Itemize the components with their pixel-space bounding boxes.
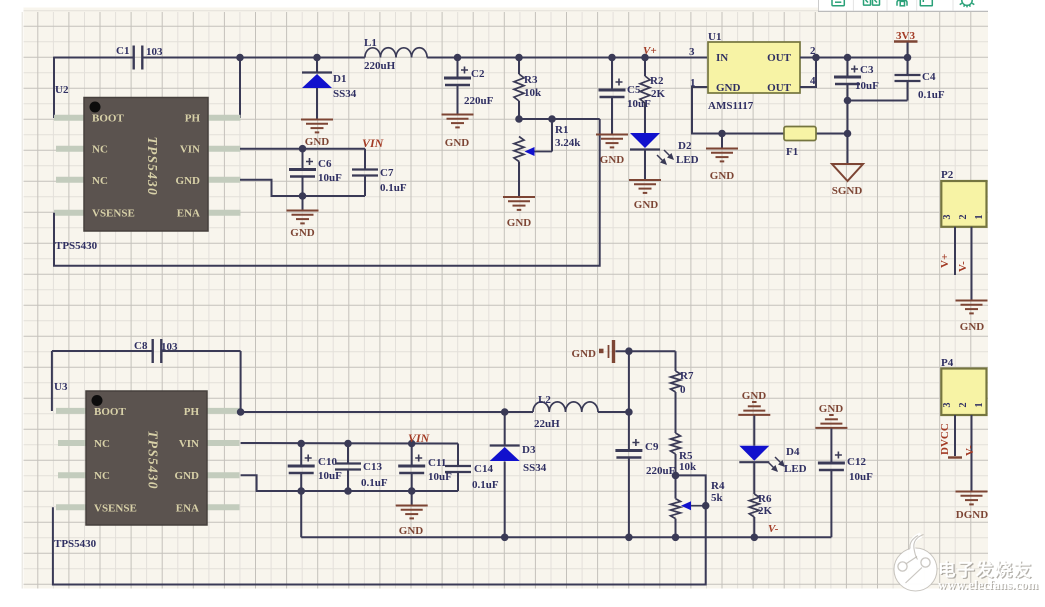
- svg-text:D1: D1: [333, 73, 346, 85]
- svg-text:GND: GND: [305, 136, 330, 148]
- wire P4 pin V-: [964, 415, 976, 491]
- diode D1 SS34: [302, 54, 332, 120]
- svg-text:10uF: 10uF: [318, 470, 342, 482]
- watermark logo: [894, 535, 937, 592]
- wire VIN pin (U2): [240, 148, 365, 150]
- svg-text:NC: NC: [92, 144, 108, 156]
- svg-text:电子发烧友: 电子发烧友: [938, 560, 1033, 580]
- net label VIN (upper): [362, 136, 385, 150]
- svg-text:10uF: 10uF: [855, 80, 879, 92]
- svg-text:U3: U3: [54, 381, 68, 393]
- svg-text:BOOT: BOOT: [92, 113, 124, 125]
- wire VSENSE feedback (U2): [54, 119, 600, 266]
- svg-text:0.1uF: 0.1uF: [918, 89, 945, 101]
- svg-text:3: 3: [942, 215, 953, 220]
- svg-text:2: 2: [958, 215, 969, 220]
- svg-text:3.24k: 3.24k: [555, 137, 581, 149]
- svg-text:2: 2: [958, 403, 969, 408]
- svg-text:GND: GND: [634, 199, 659, 211]
- wire GND pin (U3): [241, 475, 458, 491]
- capacitor C9: [615, 412, 675, 541]
- label TPS5430 (U3): [54, 538, 97, 550]
- wire P2 pin V-: [957, 227, 972, 300]
- LED D4: [739, 446, 806, 494]
- svg-text:C14: C14: [474, 463, 493, 475]
- svg-text:2: 2: [810, 45, 816, 57]
- svg-text:R6: R6: [758, 493, 772, 505]
- svg-text:R7: R7: [680, 370, 694, 382]
- ground under P2: [956, 301, 988, 334]
- toolbar strip: [818, 0, 988, 11]
- capacitor C10: [288, 440, 342, 495]
- svg-text:L1: L1: [364, 37, 377, 49]
- label P4: [941, 357, 954, 369]
- op-amp U3 TPS5430: [56, 391, 240, 525]
- svg-text:R2: R2: [650, 75, 664, 87]
- fuse F1: [784, 127, 816, 159]
- svg-text:VIN: VIN: [179, 438, 199, 450]
- pin numbers P2: [942, 215, 985, 220]
- svg-text:C12: C12: [847, 456, 866, 468]
- svg-text:SS34: SS34: [333, 88, 357, 100]
- svg-text:GND: GND: [819, 403, 844, 415]
- svg-text:10uF: 10uF: [627, 98, 651, 110]
- svg-text:GND: GND: [960, 321, 985, 333]
- svg-text:IN: IN: [716, 52, 728, 64]
- svg-text:C13: C13: [363, 461, 382, 473]
- svg-text:LED: LED: [784, 463, 807, 475]
- svg-text:V+: V+: [643, 45, 657, 57]
- wire feedback node: [515, 115, 600, 123]
- capacitor C2: [444, 54, 494, 114]
- svg-text:GND: GND: [572, 348, 597, 360]
- svg-text:C1: C1: [116, 45, 129, 57]
- connector P4: [941, 369, 986, 416]
- label U2: [55, 84, 69, 96]
- svg-text:NC: NC: [92, 175, 108, 187]
- potentiometer R4 5k: [671, 472, 725, 541]
- ground above C12: [815, 403, 847, 463]
- svg-text:3: 3: [942, 403, 953, 408]
- toolbar icons: [832, 0, 974, 7]
- svg-text:V-: V-: [768, 523, 779, 535]
- wire U1 outputs: [800, 54, 908, 87]
- svg-text:U1: U1: [708, 31, 721, 43]
- power port 3V3: [894, 30, 918, 61]
- capacitor C8: [134, 339, 178, 363]
- ground SGND: [832, 134, 863, 198]
- svg-text:OUT: OUT: [767, 82, 792, 94]
- ground under C6: [287, 196, 319, 239]
- capacitor C12: [818, 452, 873, 538]
- inductor L1 220uH: [364, 37, 427, 72]
- wire VIN rail (U3): [241, 442, 458, 445]
- regulator U1 AMS1117: [708, 42, 800, 94]
- svg-text:GND: GND: [742, 390, 767, 402]
- wire C3-C4 bottom rail: [844, 97, 908, 138]
- ground under C2: [442, 115, 474, 150]
- wire GND pin (U2): [240, 180, 365, 196]
- svg-text:3: 3: [689, 46, 695, 58]
- svg-text:10uF: 10uF: [318, 172, 342, 184]
- wire top PH rail: [54, 57, 707, 59]
- svg-text:D3: D3: [522, 444, 536, 456]
- svg-text:DVCC: DVCC: [939, 423, 951, 455]
- svg-text:www.elecfans.com: www.elecfans.com: [938, 578, 1039, 592]
- ground under R1: [503, 197, 535, 229]
- svg-text:P4: P4: [941, 357, 954, 369]
- svg-text:L2: L2: [538, 394, 551, 406]
- svg-text:GND: GND: [710, 170, 735, 182]
- svg-text:C8: C8: [134, 340, 148, 352]
- svg-text:DGND: DGND: [956, 509, 988, 521]
- pin number 3 (U1): [689, 46, 695, 58]
- ground under D2: [629, 180, 661, 211]
- ground under U1 pin1: [706, 130, 738, 182]
- svg-text:10k: 10k: [679, 461, 697, 473]
- svg-text:103: 103: [146, 46, 163, 58]
- svg-text:SGND: SGND: [832, 185, 863, 197]
- svg-text:2K: 2K: [651, 88, 666, 100]
- potentiometer R1 3.24k: [514, 115, 581, 196]
- svg-text:R3: R3: [524, 74, 538, 86]
- svg-text:5k: 5k: [711, 492, 724, 504]
- svg-text:VIN: VIN: [362, 136, 385, 150]
- LED D2: [630, 133, 699, 180]
- wire U1 GND pin to F1: [692, 87, 848, 134]
- svg-text:U2: U2: [55, 84, 69, 96]
- svg-text:PH: PH: [184, 406, 200, 418]
- svg-text:220uF: 220uF: [646, 465, 676, 477]
- svg-text:C11: C11: [428, 457, 446, 469]
- svg-text:V-: V-: [964, 445, 976, 456]
- svg-text:VSENSE: VSENSE: [92, 208, 135, 220]
- resistor R2 2K: [640, 54, 666, 133]
- svg-text:10uF: 10uF: [849, 471, 873, 483]
- svg-text:P2: P2: [941, 169, 954, 181]
- capacitor C14: [445, 444, 499, 492]
- wire P2 pin V+: [939, 227, 955, 275]
- svg-text:GND: GND: [176, 175, 201, 187]
- capacitor C1: [116, 45, 163, 70]
- diode D3 SS34: [490, 408, 520, 541]
- svg-text:GND: GND: [716, 82, 741, 94]
- svg-text:D4: D4: [786, 446, 800, 458]
- svg-text:NC: NC: [94, 438, 110, 450]
- pin number 2 (U1): [810, 45, 816, 57]
- resistor R3 10k: [514, 54, 542, 119]
- label P2: [941, 169, 954, 181]
- svg-text:R4: R4: [711, 480, 725, 492]
- ground under D1: [301, 120, 333, 149]
- resistor R7 0: [671, 351, 694, 396]
- wire PH drop: [236, 54, 244, 118]
- svg-text:0.1uF: 0.1uF: [472, 479, 499, 491]
- svg-text:22uH: 22uH: [534, 418, 560, 430]
- svg-text:BOOT: BOOT: [94, 406, 126, 418]
- svg-text:TPS5430: TPS5430: [54, 538, 97, 550]
- svg-text:C3: C3: [860, 64, 874, 76]
- ground under C11: [396, 491, 428, 537]
- svg-text:0: 0: [680, 384, 686, 396]
- capacitor C11: [398, 440, 452, 495]
- capacitor C5: [599, 54, 652, 134]
- svg-text:NC: NC: [94, 470, 110, 482]
- svg-text:1: 1: [974, 215, 985, 220]
- svg-text:LED: LED: [676, 154, 699, 166]
- svg-text:GND: GND: [399, 525, 424, 537]
- pin number 1 (U1): [690, 77, 696, 89]
- svg-text:C10: C10: [318, 456, 337, 468]
- wire PH rail (U3): [237, 408, 629, 416]
- wire P4 pin DVCC: [939, 415, 962, 458]
- pin number 4 (U1): [810, 75, 816, 87]
- svg-text:1: 1: [974, 403, 985, 408]
- svg-text:D2: D2: [678, 140, 692, 152]
- svg-text:4: 4: [810, 75, 816, 87]
- power port GND bar (lower): [572, 340, 614, 363]
- wire VSENSE feedback (U3): [53, 506, 706, 585]
- svg-text:C7: C7: [380, 167, 394, 179]
- svg-text:GND: GND: [290, 227, 315, 239]
- svg-text:C9: C9: [645, 441, 659, 453]
- svg-text:VIN: VIN: [408, 431, 431, 445]
- svg-text:TPS5430: TPS5430: [146, 430, 161, 489]
- watermark text: [938, 560, 1040, 593]
- svg-text:PH: PH: [185, 113, 201, 125]
- svg-text:TPS5430: TPS5430: [145, 137, 160, 196]
- svg-text:C4: C4: [922, 71, 936, 83]
- label U3: [54, 381, 68, 393]
- svg-text:220uH: 220uH: [364, 60, 396, 72]
- wire cap bank to bottom rail: [300, 491, 302, 537]
- svg-text:103: 103: [161, 341, 178, 353]
- label AMS1117: [708, 100, 754, 112]
- svg-text:C2: C2: [471, 68, 485, 80]
- svg-text:C5: C5: [627, 84, 641, 96]
- capacitor C7: [352, 149, 407, 196]
- svg-text:0.1uF: 0.1uF: [380, 182, 407, 194]
- svg-text:10k: 10k: [524, 87, 542, 99]
- resistor R5 10k: [671, 392, 698, 475]
- svg-text:GND: GND: [600, 154, 625, 166]
- svg-text:GND: GND: [175, 470, 200, 482]
- svg-text:V+: V+: [939, 254, 951, 268]
- svg-text:GND: GND: [507, 217, 532, 229]
- ground DGND: [956, 492, 989, 522]
- net label V+: [643, 45, 657, 57]
- wire GND bar to R7: [616, 347, 676, 415]
- svg-text:GND: GND: [445, 137, 470, 149]
- net label VIN (lower): [408, 431, 431, 445]
- wire BOOT left vertical: [53, 57, 55, 118]
- label D3: [522, 444, 547, 474]
- inductor L2 22uH: [533, 394, 598, 430]
- svg-text:OUT: OUT: [767, 52, 792, 64]
- svg-text:220uF: 220uF: [464, 95, 494, 107]
- ground above D4: [738, 390, 770, 446]
- svg-text:ENA: ENA: [177, 208, 200, 220]
- wire bottom rail: [301, 536, 831, 538]
- svg-text:SS34: SS34: [523, 462, 547, 474]
- label U1: [708, 31, 721, 43]
- svg-text:C6: C6: [318, 158, 332, 170]
- capacitor C6: [289, 145, 342, 200]
- op-amp U2 TPS5430: [54, 98, 241, 232]
- net label V-: [768, 523, 779, 535]
- svg-text:2K: 2K: [758, 505, 773, 517]
- svg-text:0.1uF: 0.1uF: [361, 477, 388, 489]
- svg-text:F1: F1: [786, 146, 798, 158]
- svg-text:V-: V-: [957, 261, 969, 272]
- capacitor C3: [834, 54, 879, 101]
- svg-text:ENA: ENA: [176, 502, 199, 514]
- svg-text:R1: R1: [555, 124, 568, 136]
- svg-text:VIN: VIN: [180, 144, 200, 156]
- wire C8 rail: [52, 351, 241, 412]
- svg-text:TPS5430: TPS5430: [55, 240, 98, 252]
- svg-text:AMS1117: AMS1117: [708, 100, 754, 112]
- pin numbers P4: [942, 403, 985, 408]
- connector P2: [941, 181, 986, 227]
- capacitor C4: [895, 58, 945, 102]
- resistor R6 2K: [749, 493, 772, 541]
- ground under C5: [596, 135, 628, 167]
- label D1: [333, 73, 357, 100]
- svg-text:VSENSE: VSENSE: [94, 502, 137, 514]
- capacitor C13: [335, 440, 388, 495]
- label TPS5430 (U2): [55, 240, 98, 252]
